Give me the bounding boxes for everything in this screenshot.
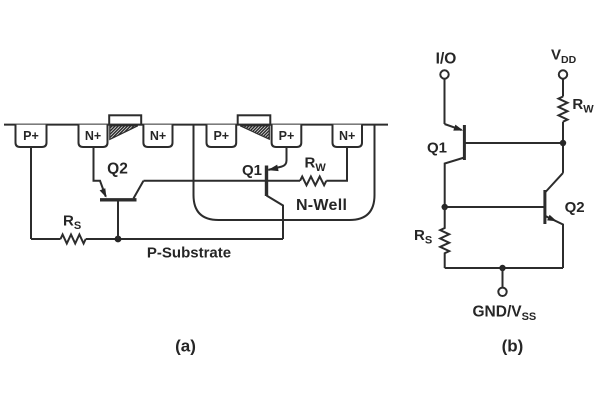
N-Well boundary outline: [194, 125, 375, 220]
junction dot (Q2 base to substrate rail): [115, 236, 122, 243]
transistor Q2 collector diagonal: [134, 181, 144, 199]
gate G2 (poly gate box over PMOS channel): [238, 115, 271, 124]
svg-text:Q2: Q2: [565, 199, 585, 216]
transistor Q2 base lead down to substrate: [117, 201, 119, 239]
wire: Q2 base line (b): [445, 206, 544, 208]
resistor RS (substrate resistance, zigzag): [61, 235, 86, 244]
wire: Q1 base to RW node: [464, 142, 563, 144]
label Q2 (cross-section): [107, 161, 128, 178]
label RW (b): [572, 96, 594, 116]
wire: RW to N+ well contact: [326, 147, 347, 181]
label RS: [63, 213, 81, 233]
wire: left P+ contact down to substrate rail: [30, 147, 32, 239]
svg-text:P+: P+: [23, 129, 39, 143]
junction dot GND node: [499, 265, 505, 271]
svg-text:I/O: I/O: [436, 51, 457, 68]
svg-text:P+: P+: [279, 129, 295, 143]
label Q1 (cross-section): [242, 162, 262, 179]
gate G1 channel hatch (oxide/channel hatched triangle): [110, 126, 138, 140]
svg-text:RW: RW: [572, 96, 594, 116]
transistor Q1 base bar (vertical PNP bar): [265, 166, 268, 197]
terminal I/O (open circle): [440, 70, 448, 78]
svg-text:RS: RS: [414, 227, 432, 247]
transistor Q2 base bar (lateral NPN, horizontal bar): [100, 198, 137, 201]
resistor RW (well resistance, zigzag): [300, 177, 326, 186]
svg-text:N+: N+: [150, 129, 166, 143]
svg-text:Q1: Q1: [427, 140, 447, 157]
wire: RW to node: [562, 122, 564, 173]
wire: VDD down to RW: [562, 79, 564, 97]
svg-text:VDD: VDD: [551, 47, 577, 67]
label GND/VSS: [473, 304, 537, 324]
label P-Substrate: [147, 245, 231, 262]
diffusion box P+ (PMOS source, Q1 emitter): [272, 125, 302, 147]
wire: silicon surface line (a): [4, 124, 388, 126]
transistor Q1 collector diagonal and lead (b): [445, 158, 465, 208]
transistor Q1 collector diagonal and lead down: [267, 196, 284, 240]
svg-text:Q1: Q1: [242, 162, 262, 179]
svg-text:RS: RS: [63, 213, 81, 233]
label VDD: [551, 47, 577, 67]
terminal VDD (open circle): [559, 70, 567, 78]
label I/O: [436, 51, 457, 68]
wire: bottom rail (b): [445, 267, 563, 269]
svg-text:(a): (a): [175, 337, 196, 356]
wire: substrate rail left segment: [31, 238, 61, 240]
transistor Q1 emitter diagonal (b): [445, 124, 462, 130]
resistor RW (b) vertical zigzag: [559, 97, 568, 122]
transistor Q2 emitter diagonal (b): [545, 216, 563, 268]
svg-text:N-Well: N-Well: [296, 197, 347, 214]
transistor Q1 emitter arrowhead: [268, 165, 279, 172]
label RW: [305, 155, 327, 175]
transistor Q2 emitter arrowhead (b): [547, 215, 557, 222]
diffusion box N+ (NMOS drain): [143, 125, 172, 147]
junction dot RW node: [560, 140, 566, 146]
diffusion box P+ (PMOS drain): [207, 125, 237, 147]
transistor Q1 emitter arrowhead (b): [453, 125, 463, 131]
svg-text:N+: N+: [85, 129, 101, 143]
diffusion box N+ (NMOS source): [79, 125, 108, 147]
wire: substrate rail to Q1 collector corner: [86, 238, 283, 240]
svg-text:Q2: Q2: [107, 161, 128, 178]
label Q1 (b): [427, 140, 447, 157]
wire: N-well internal node (Q2 collector to Q1 base to RW): [144, 180, 301, 182]
diffusion box N+ (well contact): [333, 125, 363, 147]
caption (a): [175, 337, 196, 356]
caption (b): [502, 337, 524, 356]
transistor Q1 bar (b): [463, 125, 466, 160]
transistor Q2 emitter arrowhead: [100, 188, 107, 197]
transistor Q2 emitter lead from N+ source: [94, 147, 106, 197]
svg-text:GND/VSS: GND/VSS: [473, 304, 537, 324]
svg-text:N+: N+: [339, 129, 355, 143]
wire: I/O down: [444, 79, 446, 124]
transistor Q2 bar (b): [543, 190, 546, 224]
gate G1 (poly gate box over NMOS channel): [109, 115, 141, 124]
transistor Q2 collector diagonal (b): [546, 173, 564, 192]
gate G2 channel hatch (oxide/channel hatched triangle): [240, 126, 269, 139]
wire: GND stub: [502, 268, 504, 288]
svg-text:P+: P+: [213, 129, 229, 143]
svg-text:P-Substrate: P-Substrate: [147, 245, 231, 262]
resistor RS (b) vertical zigzag: [440, 207, 449, 268]
svg-text:(b): (b): [502, 337, 524, 356]
label RS (b): [414, 227, 432, 247]
label Q2 (b): [565, 199, 585, 216]
junction dot Q2 base / RS node: [442, 204, 448, 210]
terminal GND (open circle): [498, 288, 506, 296]
diffusion box P+ substrate contact: [16, 125, 47, 147]
transistor Q1 emitter lead from P+: [268, 147, 286, 170]
label N-Well: [296, 197, 347, 214]
svg-text:RW: RW: [305, 155, 327, 175]
